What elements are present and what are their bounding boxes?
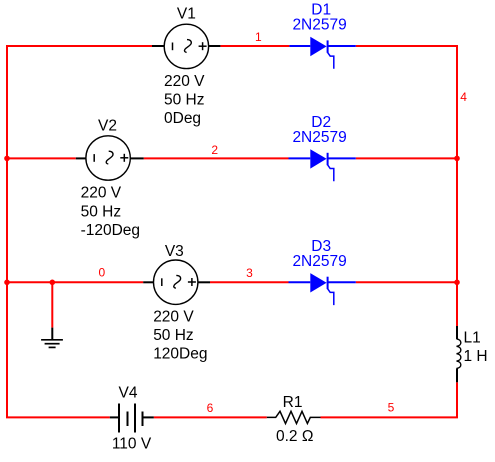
AC source V1	[152, 24, 220, 68]
wire row3 segment 3	[356, 281, 458, 283]
inductor L1	[457, 326, 461, 382]
svg-text:-120Deg: -120Deg	[81, 222, 140, 239]
wire ground stub	[51, 282, 53, 327]
svg-text:50 Hz: 50 Hz	[81, 203, 122, 220]
svg-text:50 Hz: 50 Hz	[164, 91, 205, 108]
svg-text:110 V: 110 V	[112, 435, 152, 452]
wire right rail upper	[456, 46, 458, 326]
svg-text:1 H: 1 H	[464, 348, 488, 365]
svg-text:V4: V4	[119, 385, 138, 402]
AC source V2	[76, 136, 144, 180]
wire row3 segment 1	[6, 281, 143, 283]
svg-text:0.2 Ω: 0.2 Ω	[276, 428, 313, 445]
svg-text:4: 4	[460, 90, 467, 104]
svg-text:220 V: 220 V	[81, 185, 122, 202]
wire left rail	[6, 45, 8, 418]
junction dot left rail row3	[4, 280, 10, 286]
svg-text:R1: R1	[283, 394, 303, 411]
wire row2 segment 1	[6, 157, 76, 159]
thyristor D3	[289, 273, 356, 305]
thyristor D1	[289, 37, 355, 69]
AC source V3	[143, 260, 210, 304]
wire top row segment 2	[220, 45, 289, 47]
svg-text:2: 2	[211, 143, 218, 157]
wire top row segment 3	[356, 45, 458, 47]
junction dot right rail row2	[454, 156, 460, 162]
wire row2 segment 3	[356, 157, 458, 159]
svg-text:220 V: 220 V	[153, 309, 194, 326]
wire row3 segment 2	[210, 281, 289, 283]
svg-text:0: 0	[98, 266, 105, 280]
thyristor D2	[289, 149, 356, 181]
wire bottom row segment 3	[321, 416, 459, 418]
wire bottom row segment 2	[154, 416, 267, 418]
svg-text:220 V: 220 V	[164, 73, 205, 90]
svg-text:L1: L1	[464, 330, 481, 347]
svg-text:2N2579: 2N2579	[292, 17, 346, 34]
svg-text:0Deg: 0Deg	[164, 110, 201, 127]
junction dot left rail row2	[4, 156, 10, 162]
svg-text:6: 6	[207, 401, 214, 415]
svg-text:V2: V2	[98, 118, 117, 135]
wire bottom row segment 1	[6, 416, 110, 418]
svg-text:V1: V1	[177, 6, 196, 23]
junction dot ground node	[50, 280, 56, 286]
ground	[41, 328, 63, 348]
svg-text:2N2579: 2N2579	[292, 129, 346, 146]
battery V4	[110, 404, 154, 433]
wire top row segment 1	[6, 45, 152, 47]
svg-text:120Deg: 120Deg	[153, 346, 207, 363]
wire right rail lower	[456, 382, 458, 418]
wire row2 segment 2	[144, 157, 289, 159]
svg-text:1: 1	[255, 30, 262, 44]
svg-text:2N2579: 2N2579	[292, 253, 346, 270]
svg-text:5: 5	[388, 401, 395, 415]
svg-text:V3: V3	[165, 243, 184, 260]
resistor R1	[267, 411, 321, 423]
svg-text:50 Hz: 50 Hz	[153, 327, 194, 344]
svg-text:3: 3	[246, 266, 253, 280]
junction dot right rail row3	[454, 280, 460, 286]
